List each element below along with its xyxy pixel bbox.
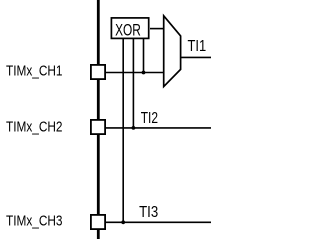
gate XOR box (111, 18, 148, 39)
svg-text:XOR: XOR (115, 20, 141, 39)
wire: TI1 output from mux (181, 56, 211, 58)
svg-text:TI3: TI3 (139, 204, 158, 221)
wire: CH3 horizontal to right edge (105, 221, 211, 223)
mux (input selector trapezoid) (164, 16, 181, 87)
node: junction on CH2 line (132, 126, 136, 130)
wire: XOR output to mux (150, 28, 164, 30)
wire: XOR input 3 (taps CH3 line) (122, 39, 124, 222)
wire: main vertical pin rail (97, 0, 100, 239)
wire: XOR input 1 (taps CH1 line) (143, 39, 145, 73)
pin TIMx_CH2 (91, 120, 105, 134)
node: junction on CH3 line (121, 220, 125, 224)
wire: CH1 horizontal to mux (105, 72, 164, 74)
wire: CH2 horizontal to right edge (105, 127, 211, 129)
svg-text:TIMx_CH2: TIMx_CH2 (6, 120, 63, 136)
wire: XOR input 2 (taps CH2 line) (132, 39, 134, 128)
svg-text:TI1: TI1 (188, 38, 207, 55)
pin TIMx_CH3 (91, 215, 105, 229)
svg-text:TI2: TI2 (141, 110, 158, 127)
pin TIMx_CH1 (91, 65, 105, 79)
node: junction on CH1 line (142, 71, 146, 75)
svg-text:TIMx_CH1: TIMx_CH1 (6, 64, 63, 80)
svg-text:TIMx_CH3: TIMx_CH3 (6, 214, 63, 230)
